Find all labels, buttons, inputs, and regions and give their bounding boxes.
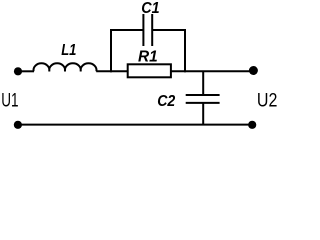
inductor L1 bbox=[34, 63, 97, 71]
svg-text:U2: U2 bbox=[257, 90, 278, 111]
terminal dot top-left bbox=[14, 67, 22, 75]
resistor R1 bbox=[128, 64, 171, 77]
wire : C2 lower stub bbox=[202, 103, 204, 125]
wire : U1 dot to inductor bbox=[18, 70, 34, 72]
svg-text:C1: C1 bbox=[141, 0, 159, 17]
svg-text:U1: U1 bbox=[1, 90, 18, 111]
wire : bottom rail bbox=[18, 124, 252, 126]
capacitor C2 plates bbox=[186, 95, 220, 103]
svg-text:R1: R1 bbox=[138, 49, 158, 66]
wire : inductor to U2 dot bbox=[96, 70, 253, 72]
svg-text:C2: C2 bbox=[157, 93, 175, 110]
terminal dot bottom-right bbox=[248, 121, 256, 129]
wire : parallel box right vertical bbox=[184, 30, 186, 72]
svg-text:L1: L1 bbox=[61, 42, 76, 59]
terminal dot top-right bbox=[249, 66, 258, 75]
wire : top branch right segment bbox=[152, 29, 186, 31]
wire : parallel box left vertical bbox=[110, 30, 112, 72]
terminal dot bottom-left bbox=[14, 121, 22, 129]
capacitor C1 plates bbox=[143, 14, 152, 46]
wire : C2 upper stub bbox=[202, 71, 204, 95]
wire : top branch left segment bbox=[110, 29, 143, 31]
